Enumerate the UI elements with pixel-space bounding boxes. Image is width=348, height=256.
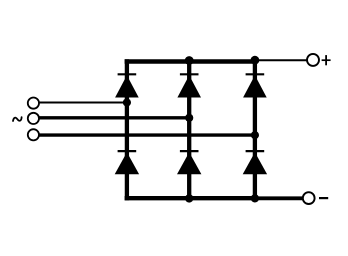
wire: to + output terminal	[255, 59, 307, 61]
wire: leg 2 vertical (phase B bridge arm)	[187, 59, 191, 200]
terminal: AC input 3 (open circle)	[28, 129, 39, 140]
label: ~ (AC symbol)	[13, 117, 22, 121]
wire: leg 1 vertical (phase A bridge arm)	[125, 59, 129, 200]
wire: to - output terminal	[255, 196, 303, 200]
junction: phase C / leg 3	[251, 131, 259, 139]
wire: leg 3 vertical (phase C bridge arm)	[253, 59, 257, 200]
terminal: AC input 2 (open circle)	[28, 113, 39, 124]
diode D3 (upper middle)	[177, 74, 201, 97]
junction: phase A / leg 1	[123, 98, 131, 106]
wire: AC phase B input line	[39, 116, 189, 119]
wire: top DC+ rail	[125, 59, 258, 63]
junction: bottom rail / leg 2	[185, 194, 193, 202]
wire: bottom DC- rail	[125, 196, 258, 200]
terminal: DC + output (open circle)	[307, 54, 319, 66]
wire: AC phase A input line	[39, 102, 127, 104]
label: + (positive output)	[322, 55, 331, 65]
wire: AC phase C input line	[39, 133, 255, 136]
diode D5 (upper right)	[243, 74, 267, 97]
diode D6 (lower middle)	[177, 151, 201, 174]
diode D2 (lower right)	[243, 151, 267, 174]
junction: phase B / leg 2	[185, 114, 193, 122]
diode D4 (lower left)	[115, 151, 139, 174]
junction: top rail / leg 2	[185, 56, 194, 65]
label: - (negative output)	[319, 197, 328, 199]
diode D1 (upper left)	[115, 74, 139, 97]
terminal: DC - output (open circle)	[303, 192, 315, 204]
terminal: AC input 1 (open circle)	[28, 98, 39, 109]
junction: bottom rail / leg 3	[251, 194, 259, 202]
junction: top rail / leg 3	[251, 56, 260, 65]
